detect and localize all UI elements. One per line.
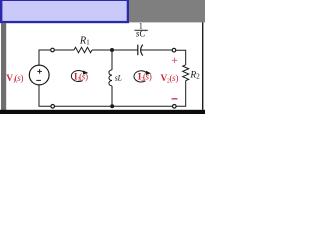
- label plus polarity V2: [172, 58, 178, 63]
- svg-text:I1(s): I1(s): [74, 71, 88, 83]
- junction node A (top of sL): [110, 48, 114, 52]
- node top-left: [51, 48, 55, 52]
- V1 plus sign: [37, 69, 42, 74]
- wire node to top-right corner down to R2: [176, 50, 186, 65]
- wire R2 to bottom-right corner: [176, 81, 185, 107]
- svg-text:R2: R2: [189, 70, 200, 80]
- resistor R2: [183, 65, 189, 81]
- node bottom-right: [173, 105, 177, 109]
- svg-text:V1(s): V1(s): [6, 73, 23, 85]
- inductor sL: [109, 70, 112, 86]
- svg-text:sC: sC: [136, 28, 147, 38]
- node top-right: [172, 48, 176, 52]
- wire sL branch top: [111, 50, 113, 70]
- wire node to R1: [55, 49, 74, 51]
- V1 minus sign: [36, 79, 41, 81]
- mesh current arrow I2: [134, 71, 151, 82]
- mesh current arrow I1: [71, 70, 88, 81]
- wire left branch top corner: [39, 50, 50, 65]
- wire junction B to bottom-left node: [55, 105, 112, 107]
- wire junction A to capacitor: [112, 49, 138, 51]
- label 1/sC fraction bar: [134, 29, 148, 32]
- wire capacitor to node: [140, 49, 172, 51]
- resistor R1: [74, 47, 92, 52]
- junction node B (bottom of sL): [110, 104, 114, 108]
- wire sL branch bottom: [111, 86, 113, 106]
- wire bottom-left corner up to V1: [39, 85, 51, 106]
- capacitor 1/sC: [138, 45, 143, 56]
- wire R1 to junction A: [92, 49, 112, 51]
- voltage source V1 circle: [29, 65, 49, 85]
- svg-text:sL: sL: [115, 74, 123, 83]
- node bottom-left: [51, 105, 55, 109]
- label minus polarity V2: [172, 98, 178, 100]
- svg-text:I2(s): I2(s): [138, 72, 152, 84]
- svg-text:V2(s): V2(s): [161, 73, 179, 85]
- wire bottom-right node to junction B: [112, 105, 172, 107]
